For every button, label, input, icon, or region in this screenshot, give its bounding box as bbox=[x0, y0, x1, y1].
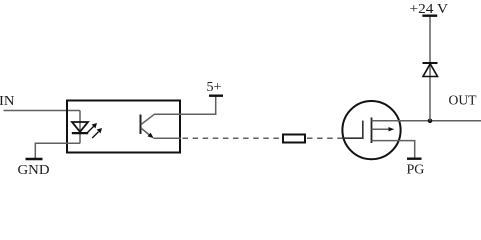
wire LED cathode to GND bbox=[35, 143, 80, 158]
LED light arrow 2 bbox=[92, 128, 102, 138]
supply terminal +24V bar bbox=[422, 14, 437, 16]
ground PG bbox=[407, 157, 422, 159]
MOSFET Q2 channel bar bbox=[371, 118, 373, 144]
MOSFET Q2 gate lead and gate bar bbox=[343, 121, 363, 139]
phototransistor Q1 base bar bbox=[140, 115, 142, 135]
svg-text:+24 V: +24 V bbox=[410, 2, 449, 17]
MOSFET Q2 substrate arrow bbox=[372, 127, 395, 131]
MOSFET Q2 source lead bbox=[372, 141, 415, 158]
phototransistor Q1 collector wire to 5+ bbox=[141, 97, 216, 125]
wire dashed gate segment 1 bbox=[183, 137, 282, 139]
resistor R1 bbox=[283, 135, 305, 143]
svg-text:OUT: OUT bbox=[449, 94, 477, 109]
diode D2 bbox=[423, 63, 438, 77]
LED light arrow 1 bbox=[88, 123, 98, 133]
svg-text:GND: GND bbox=[18, 163, 50, 178]
MOSFET Q2 drain lead / wire OUT bbox=[372, 120, 481, 122]
svg-text:5+: 5+ bbox=[207, 80, 222, 95]
node junction dot bbox=[428, 119, 433, 124]
svg-text:IN: IN bbox=[0, 94, 15, 109]
optocoupler U1 body bbox=[67, 101, 180, 153]
ground GND bbox=[26, 158, 43, 160]
LED D1 bbox=[72, 122, 88, 133]
wire LED anode/cathode vertical bbox=[79, 111, 81, 144]
phototransistor Q1 emitter with arrow bbox=[141, 128, 181, 138]
wire IN input bbox=[4, 110, 81, 112]
supply terminal 5+ bar bbox=[209, 94, 223, 96]
MOSFET Q2 body circle bbox=[342, 101, 400, 159]
wire dashed gate segment 2 bbox=[307, 137, 344, 139]
svg-text:PG: PG bbox=[407, 163, 425, 178]
wire +24V vertical bbox=[429, 17, 431, 121]
